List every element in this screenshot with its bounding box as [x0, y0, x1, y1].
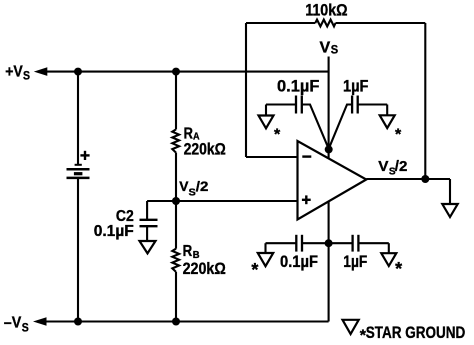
wire bottom 1uF right lead — [358, 242, 388, 244]
label VS/2 output — [378, 158, 407, 177]
battery B1 — [67, 165, 90, 178]
resistor RA — [172, 129, 179, 152]
node VS/2 junction dot — [172, 197, 180, 205]
capacitor C2 — [140, 220, 158, 226]
wire feedback left vertical — [245, 23, 247, 157]
wire RB top — [175, 201, 177, 249]
label RA — [184, 126, 200, 143]
op-amp U1 — [298, 141, 367, 220]
wire -VS rail — [46, 320, 329, 322]
svg-text:*: * — [274, 126, 281, 143]
capacitor 0.1uF bottom — [296, 235, 302, 252]
node output junction dot — [421, 175, 429, 183]
capacitor 1uF top — [352, 96, 358, 114]
wire VS supply line — [328, 57, 330, 159]
wire top-right ground riser — [386, 105, 388, 116]
wire RA bottom — [175, 153, 177, 201]
svg-text:/2: /2 — [196, 178, 209, 194]
arrow +VS — [34, 67, 48, 76]
label VS/2 node — [179, 178, 208, 199]
svg-text:*: * — [395, 127, 402, 144]
battery + label — [80, 151, 89, 160]
node supply junction dot — [325, 145, 333, 153]
wire feedback top left — [246, 22, 315, 24]
ground star top-left — [259, 116, 274, 129]
svg-text:S: S — [189, 187, 196, 199]
wire output — [366, 178, 450, 180]
wire top 1uF left lead — [329, 105, 352, 149]
wire bottom 1uF left lead — [329, 242, 353, 244]
wire feedback right vertical — [424, 23, 426, 179]
wire top 1uF right lead — [358, 103, 388, 105]
capacitor 0.1uF top — [296, 96, 302, 114]
wire RB bottom — [175, 272, 177, 322]
svg-text:110kΩ: 110kΩ — [305, 1, 347, 20]
label VS supply — [320, 39, 339, 56]
ground star bottom-left — [258, 253, 273, 266]
wire RA top — [175, 72, 177, 130]
wire op-amp V- pin — [328, 201, 330, 321]
wire inverting input — [246, 156, 298, 158]
wire bottom-left ground riser — [264, 243, 266, 253]
svg-text:V: V — [378, 158, 388, 175]
node junction dot +VS/RA — [172, 68, 180, 76]
node bottom bypass junction dot — [325, 239, 333, 247]
label +VS — [5, 63, 30, 82]
capacitor C2 lead — [146, 201, 148, 220]
svg-text:S: S — [331, 43, 338, 57]
capacitor 1uF bottom — [353, 235, 359, 252]
svg-text:STAR GROUND: STAR GROUND — [366, 323, 466, 342]
svg-text:1µF: 1µF — [343, 252, 367, 271]
node junction dot +VS/battery — [74, 68, 82, 76]
label RB — [183, 243, 200, 261]
ground star top-right — [380, 115, 395, 128]
wire C2 to ground — [146, 226, 148, 241]
svg-text:–V: –V — [4, 314, 22, 331]
wire bottom 0.1uF right lead — [302, 242, 329, 244]
ground legend symbol — [343, 320, 359, 334]
wire VS/2 node to op-amp + input — [147, 200, 297, 202]
svg-text:*: * — [251, 260, 258, 280]
svg-text:0.1µF: 0.1µF — [280, 252, 318, 271]
ground at output — [442, 204, 457, 217]
node junction dot -VS/battery — [74, 318, 82, 326]
wire bottom 0.1uF left lead — [266, 242, 297, 244]
op-amp plus sign — [302, 195, 311, 204]
svg-text:1µF: 1µF — [343, 76, 369, 95]
wire feedback top right — [336, 22, 426, 24]
wire top 0.1uF left lead — [266, 103, 296, 105]
resistor 110k — [315, 20, 335, 27]
label -VS — [4, 314, 29, 334]
ground below C2 — [140, 241, 156, 253]
svg-text:S: S — [23, 70, 30, 82]
node junction dot -VS/RB — [172, 318, 180, 326]
svg-text:220kΩ: 220kΩ — [183, 259, 226, 278]
arrow -VS — [33, 317, 47, 326]
svg-text:S: S — [22, 323, 29, 335]
wire output to ground — [449, 179, 451, 204]
op-amp minus sign — [302, 155, 311, 157]
wire battery bottom — [77, 178, 79, 322]
svg-text:0.1µF: 0.1µF — [277, 76, 319, 95]
svg-text:*: * — [395, 259, 402, 279]
wire battery top — [77, 72, 79, 165]
wire bottom-right ground riser — [388, 243, 390, 253]
ground star bottom-right — [381, 253, 396, 266]
svg-text:V: V — [320, 39, 331, 56]
resistor RB — [172, 249, 179, 272]
wire top 0.1uF right lead — [302, 105, 329, 149]
wire top-left ground riser — [265, 105, 267, 116]
svg-text:/2: /2 — [395, 158, 408, 175]
svg-text:+V: +V — [5, 63, 23, 80]
svg-text:R: R — [183, 243, 193, 260]
wire +VS rail — [47, 71, 329, 73]
svg-text:220kΩ: 220kΩ — [184, 140, 226, 159]
svg-text:0.1µF: 0.1µF — [94, 223, 134, 240]
